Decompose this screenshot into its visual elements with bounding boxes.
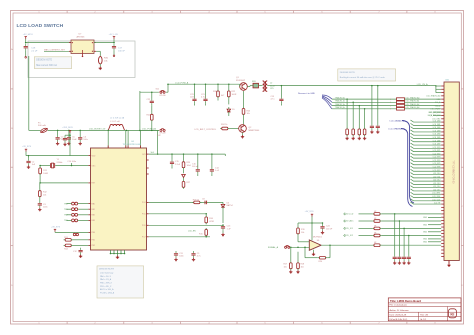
crystal Y1	[51, 163, 55, 168]
svg-text:Ki: Ki	[450, 312, 454, 317]
gnd opamp	[313, 250, 315, 253]
wire to pin 3	[382, 235, 442, 237]
svg-text:GND: GND	[423, 224, 428, 226]
svg-text:C10 100n: C10 100n	[67, 161, 76, 163]
svg-text:100R: 100R	[232, 94, 237, 96]
svg-text:DESIGN NOTE: DESIGN NOTE	[99, 269, 115, 271]
wire boost rail left	[29, 129, 41, 131]
wire switch box down	[28, 56, 30, 130]
wire cap drop 0	[394, 213, 396, 215]
resistor R28 inline	[192, 201, 201, 204]
capacitor CC2	[402, 255, 406, 262]
wire rn out 3	[405, 108, 442, 110]
capacitor CC3	[407, 255, 411, 262]
svg-text:100R: 100R	[43, 173, 48, 175]
svg-text:PC5: PC5	[142, 214, 146, 216]
capacitor C7	[69, 134, 71, 136]
pin 51	[441, 249, 444, 251]
pin 11	[441, 118, 444, 120]
svg-text:2.2 uF: 2.2 uF	[31, 50, 38, 52]
connector bottom pin	[448, 261, 450, 264]
pin 49	[441, 242, 444, 244]
bus entry row 13	[411, 123, 442, 125]
resistor R04	[372, 244, 381, 247]
bus entry row 20	[411, 146, 442, 148]
svg-text:BAT54: BAT54	[227, 204, 234, 207]
wire cap riser a	[371, 86, 373, 124]
pin 10	[441, 115, 444, 117]
gnd jtag 2	[358, 137, 361, 140]
pin 1	[441, 85, 444, 87]
capacitor C4	[57, 130, 59, 132]
svg-text:LCD_SP1: LCD_SP1	[433, 150, 441, 152]
svg-text:PA1: PA1	[92, 208, 95, 211]
svg-text:LCD Summary:: LCD Summary:	[100, 272, 114, 274]
pin 21	[441, 151, 444, 153]
svg-text:LCD_D15: LCD_D15	[433, 189, 440, 191]
svg-text:+3V_ADC: +3V_ADC	[345, 220, 354, 223]
diode D4	[183, 169, 185, 173]
svg-text:LCD_DB7: LCD_DB7	[433, 144, 441, 146]
resistor R12	[39, 189, 42, 198]
svg-text:+3V_SYS: +3V_SYS	[22, 146, 32, 148]
bus entry row 14	[411, 127, 442, 129]
svg-text:PA0 = D0..3: PA0 = D0..3	[100, 275, 112, 278]
svg-text:100 nF: 100 nF	[326, 228, 333, 230]
svg-text:500 mA: 500 mA	[38, 124, 46, 127]
capacitor C6	[79, 130, 81, 132]
svg-text:KiCad E.D.A. 8.0.1: KiCad E.D.A. 8.0.1	[390, 318, 409, 321]
resistor RN1 0	[397, 98, 405, 101]
wire PC4 row	[149, 201, 223, 203]
bus entry row 35	[411, 196, 442, 198]
kicad logo	[448, 309, 456, 318]
wire low row 4	[371, 244, 373, 246]
wire 3V3 row end cap	[224, 154, 226, 156]
solder jumper SJ2	[160, 129, 165, 132]
gnd jtag 1	[352, 137, 355, 140]
bus entry row 33	[411, 189, 442, 191]
top power rail wire	[168, 83, 240, 85]
net label MAX_CURRENT_SET	[44, 50, 71, 52]
bus entry row 30	[411, 179, 442, 181]
svg-text:10k: 10k	[247, 113, 250, 115]
svg-text:LCD_DB3: LCD_DB3	[433, 130, 441, 132]
resistor R11	[39, 166, 41, 167]
resistor R17	[290, 247, 292, 255]
bus entry row 26	[411, 166, 442, 168]
wire rn out 0	[405, 98, 442, 100]
resistor R18	[297, 252, 299, 262]
svg-text:SCL_A: SCL_A	[435, 101, 441, 104]
svg-text:LCD_DCX: LCD_DCX	[432, 199, 441, 201]
pin 19	[441, 144, 444, 146]
svg-text:LCD_TRACK0_A0: LCD_TRACK0_A0	[405, 97, 419, 100]
wire gnd short row b	[433, 114, 441, 116]
svg-text:3V3: 3V3	[142, 154, 145, 156]
top rail long wire to connector	[281, 85, 431, 87]
svg-text:1: 1	[390, 109, 391, 111]
svg-text:LCD_INT_2C0: LCD_INT_2C0	[429, 112, 440, 114]
svg-text:Backlight current 30 mA abs ma: Backlight current 30 mA abs max @ 25 C a…	[340, 76, 386, 79]
wire jtag drop 0	[346, 99, 348, 127]
svg-text:LCD_DB1: LCD_DB1	[433, 124, 441, 126]
wire to pin 1	[382, 220, 442, 222]
wire jtag drop 2	[358, 106, 360, 128]
pin 17	[441, 137, 444, 139]
svg-text:LCD_CN_A: LCD_CN_A	[417, 83, 428, 86]
pin 47	[441, 236, 444, 238]
svg-text:Rev: 2B: Rev: 2B	[420, 315, 428, 317]
bus entry row 23	[411, 156, 442, 158]
U7 pins	[69, 42, 71, 44]
riser to 3V3 row	[157, 130, 159, 154]
wire cap drop 1	[399, 220, 401, 222]
svg-text:ADC0 = SIG_A: ADC0 = SIG_A	[100, 288, 114, 291]
svg-text:Title: LM3S Demo Board: Title: LM3S Demo Board	[390, 299, 421, 303]
pin 40	[441, 213, 444, 215]
wire boost rail mid	[48, 129, 108, 131]
pin 20	[441, 147, 444, 149]
wire gnd short row a	[433, 111, 441, 113]
svg-text:LCD_SPARE: LCD_SPARE	[430, 108, 441, 111]
MCU bottom pins	[110, 250, 112, 254]
capacitor C8 inline	[205, 201, 207, 205]
svg-text:4.7u: 4.7u	[197, 255, 201, 257]
capacitor C13	[222, 225, 224, 227]
bus entry row 29	[411, 176, 442, 178]
junction jtag 0	[346, 98, 348, 100]
svg-text:LCD_EN: LCD_EN	[188, 231, 196, 233]
bus entry row 34	[411, 192, 442, 194]
pin 29	[441, 177, 444, 179]
MCU left pin rows	[88, 155, 90, 157]
svg-text:100n: 100n	[190, 97, 194, 99]
pin 36	[441, 200, 444, 202]
capacitor CC1	[397, 255, 401, 262]
svg-text:LCD_IO2: LCD_IO2	[345, 235, 353, 237]
feedback resistor R20	[318, 256, 327, 259]
pin 3	[441, 92, 444, 94]
gnd jtag 0	[345, 137, 348, 140]
MCU U4 body	[91, 148, 147, 250]
bus entry row 15	[411, 130, 442, 132]
capacitor C18	[24, 44, 28, 51]
wire gnd row	[428, 231, 441, 233]
svg-text:PB1 = RD_X: PB1 = RD_X	[100, 286, 112, 288]
pin 16	[441, 134, 444, 136]
pin 9	[441, 111, 444, 113]
vertical link between jumpers	[139, 91, 141, 130]
resistor RJ3	[363, 127, 366, 136]
bus entry row 17	[411, 136, 442, 138]
pin 34	[441, 193, 444, 195]
svg-text:Max current 300 mA: Max current 300 mA	[36, 64, 57, 67]
wire cap drop 2	[403, 228, 405, 230]
svg-text:100n: 100n	[179, 255, 183, 257]
svg-text:+3V_SYS: +3V_SYS	[305, 211, 315, 213]
svg-text:MAX_CURRENT_SET: MAX_CURRENT_SET	[44, 49, 66, 52]
svg-text:100 nF: 100 nF	[192, 166, 199, 168]
pin 43	[441, 223, 444, 225]
svg-text:LCD_DB4: LCD_DB4	[433, 134, 441, 136]
pin 14	[441, 128, 444, 130]
junction jtag 3	[364, 108, 366, 110]
resistor R25	[183, 153, 185, 155]
capacitor C2	[28, 155, 30, 157]
wire to pin 2	[382, 227, 442, 229]
svg-text:PA0: PA0	[92, 202, 95, 205]
svg-text:TFT-CONTROLLER: TFT-CONTROLLER	[123, 144, 142, 146]
pin 44	[441, 226, 444, 228]
svg-text:OP-DE: OP-DE	[159, 95, 166, 97]
wire cap riser b	[377, 86, 379, 124]
wire PC7 row	[149, 236, 210, 238]
resistor R30	[99, 56, 103, 64]
capacitor CC0	[393, 255, 397, 262]
pin 2	[441, 88, 444, 90]
svg-text:Reserve it to GND: Reserve it to GND	[298, 92, 315, 95]
svg-text:100n: 100n	[83, 139, 87, 141]
svg-text:+3V_LCD: +3V_LCD	[345, 214, 354, 216]
svg-text:L1 4.7 uH: L1 4.7 uH	[110, 121, 120, 123]
resistor RJ0	[346, 127, 349, 136]
wire to pin 0	[382, 213, 442, 215]
svg-text:PA2: PA2	[92, 214, 95, 217]
wire opamp vcc	[311, 217, 313, 224]
svg-text:LCD_DB0: LCD_DB0	[433, 121, 441, 123]
svg-text:LCD_TRACK0_A3: LCD_TRACK0_A3	[426, 95, 440, 98]
svg-text:+3V_MCU: +3V_MCU	[23, 34, 34, 36]
svg-text:PC4: PC4	[142, 202, 146, 204]
pin 28	[441, 174, 444, 176]
MCU top pins	[107, 146, 109, 149]
pin 5	[441, 98, 444, 100]
svg-text:LCD_D12: LCD_D12	[433, 180, 440, 182]
bus entry row 27	[411, 169, 442, 171]
svg-text:PC2M = DTA_A: PC2M = DTA_A	[100, 292, 115, 295]
svg-text:LCD_D13: LCD_D13	[433, 183, 440, 185]
capacitor C10	[71, 165, 73, 167]
svg-text:DESIGN NOTE: DESIGN NOTE	[36, 60, 52, 62]
pin 12	[441, 121, 444, 123]
pin 53	[441, 256, 444, 258]
resistor R16	[205, 213, 207, 215]
inductor L2 coupled	[263, 81, 265, 92]
capacitor C9	[191, 251, 195, 258]
resistor R19	[297, 223, 299, 227]
svg-text:R24 1k: R24 1k	[221, 124, 227, 126]
pin 37	[441, 203, 444, 205]
capacitor C15	[171, 153, 173, 155]
svg-text:AP2306: AP2306	[77, 36, 86, 39]
wire RST row	[40, 182, 88, 184]
resistor R13	[64, 239, 73, 242]
svg-text:LCD_SP4: LCD_SP4	[433, 160, 441, 162]
svg-text:PB0: PB0	[92, 232, 95, 234]
wire rail left	[26, 42, 71, 44]
svg-text:+3V_SYS: +3V_SYS	[51, 226, 61, 228]
gnd jtag 3	[363, 137, 366, 140]
svg-text:SDA_A: SDA_A	[435, 104, 441, 107]
svg-text:8 MHz: 8 MHz	[57, 162, 63, 164]
svg-text:PB0 = WR_X: PB0 = WR_X	[100, 282, 113, 284]
svg-text:LCD_TRACK0_A3: LCD_TRACK0_A3	[405, 106, 419, 109]
pin 42	[441, 219, 444, 221]
resistor R27 lower	[182, 180, 185, 189]
svg-text:PC6: PC6	[142, 225, 146, 227]
svg-text:Author: N. Unknown: Author: N. Unknown	[390, 309, 410, 312]
solder jumper SJ1	[160, 90, 165, 93]
pin 41	[441, 216, 444, 218]
diode D3	[221, 202, 225, 209]
svg-text:LCD_TRACK0_A2: LCD_TRACK0_A2	[405, 103, 419, 106]
bus entry row 37	[411, 202, 442, 204]
wire power to rail	[25, 39, 27, 43]
capacitor C16	[197, 153, 199, 155]
svg-text:OP-DE: OP-DE	[159, 132, 166, 134]
wire gnd row	[428, 224, 441, 226]
svg-text:LCD_D11: LCD_D11	[433, 176, 440, 178]
bus entry row 31	[411, 182, 442, 184]
resistor RN1 3	[397, 108, 405, 111]
svg-text:470R: 470R	[209, 221, 214, 223]
pin 24	[441, 160, 444, 162]
resistor R02	[372, 227, 381, 230]
capacitor C12	[79, 248, 83, 255]
pin 46	[441, 233, 444, 235]
ferrite bead FB1	[253, 83, 259, 88]
svg-text:+3V3_MCU: +3V3_MCU	[62, 127, 73, 129]
svg-text:100 nF: 100 nF	[118, 50, 125, 52]
resistor R01	[372, 220, 381, 223]
svg-text:GND: GND	[423, 239, 428, 241]
MCU right pin rows	[147, 153, 149, 155]
wire VDD row	[26, 155, 88, 157]
pin 38	[441, 206, 444, 208]
bus entry row 28	[411, 173, 442, 175]
wire to pin 4	[382, 244, 442, 246]
svg-text:LCD_BOOST_5V: LCD_BOOST_5V	[89, 129, 106, 131]
resistor R03	[372, 234, 381, 237]
svg-text:10k: 10k	[301, 232, 304, 234]
capacitor CJ1	[370, 124, 374, 131]
wire rn out 1	[405, 101, 442, 103]
wire boost rail right of L1	[107, 129, 159, 131]
capacitor C5	[68, 130, 70, 132]
pin 48	[441, 239, 444, 241]
capacitor C24	[322, 222, 324, 224]
wire gnd row	[428, 217, 441, 219]
pin 25	[441, 164, 444, 166]
jumper signal	[285, 246, 290, 249]
resistor R14	[64, 244, 73, 247]
svg-text:+3V_LCD: +3V_LCD	[109, 34, 119, 36]
pin 32	[441, 187, 444, 189]
resistor RJ2	[358, 127, 361, 136]
bus entry row 36	[411, 199, 442, 201]
wire R24 to Q2	[229, 128, 238, 130]
resistor R15	[205, 229, 207, 231]
resistor RJ1	[352, 127, 355, 136]
section outline box	[28, 41, 135, 78]
capacitor C14	[211, 153, 213, 155]
bus entry row 12	[411, 120, 442, 122]
svg-text:4.7u: 4.7u	[271, 99, 275, 101]
wire signal to opamp	[290, 246, 309, 248]
svg-text:100n: 100n	[43, 206, 47, 208]
svg-text:TRACK1_A: TRACK1_A	[335, 100, 346, 103]
gnd CC2	[402, 261, 405, 264]
IC U7 load switch	[71, 40, 94, 54]
svg-text:SIGNAL_A: SIGNAL_A	[268, 246, 279, 249]
svg-text:PA3: PA3	[92, 219, 95, 222]
svg-text:Id: 1/1: Id: 1/1	[420, 319, 427, 321]
op-amp U6	[309, 240, 321, 250]
boot jumper	[73, 233, 75, 235]
svg-text:LCD_TE: LCD_TE	[434, 203, 441, 205]
svg-text:LCD_DB2: LCD_DB2	[433, 127, 441, 129]
svg-text:LCD_TRACK0_A1: LCD_TRACK0_A1	[405, 100, 419, 103]
svg-text:GND: GND	[423, 232, 428, 234]
svg-text:LCD_WRT: LCD_WRT	[432, 193, 440, 195]
resistor R26	[217, 83, 219, 85]
svg-text:TRACK2_A: TRACK2_A	[335, 103, 346, 106]
svg-text:LCD_SP6: LCD_SP6	[433, 167, 441, 169]
wire opamp out	[321, 244, 372, 246]
svg-text:LCD_D10: LCD_D10	[433, 173, 440, 175]
pin 35	[441, 197, 444, 199]
resistor R23	[243, 91, 245, 107]
pin 50	[441, 246, 444, 248]
inductor L1	[108, 124, 124, 130]
svg-text:PB2: PB2	[92, 245, 95, 247]
pin 26	[441, 167, 444, 169]
svg-text:LCD_RDX: LCD_RDX	[432, 196, 441, 198]
resistor RN1 2	[397, 104, 405, 107]
diode D5	[228, 98, 230, 104]
wire gnd row	[428, 241, 441, 243]
svg-text:MCP6001: MCP6001	[313, 236, 323, 238]
junction C18	[25, 42, 27, 44]
svg-text:LCD_BKLT_CONTROL: LCD_BKLT_CONTROL	[195, 129, 218, 131]
svg-text:File: LCD-load.pro: File: LCD-load.pro	[390, 305, 408, 307]
svg-text:LCD_DB6: LCD_DB6	[433, 140, 441, 142]
pin 7	[441, 105, 444, 107]
pin end below C18	[25, 51, 27, 57]
pin end below C17	[113, 51, 115, 55]
junction jtag 1	[352, 102, 354, 104]
connector CN1 body	[444, 82, 459, 261]
svg-text:1: 1	[390, 105, 391, 107]
capacitor C21	[205, 83, 207, 85]
wires MCU top pins to rail	[107, 130, 109, 132]
svg-text:1: 1	[390, 99, 391, 101]
capacitor C17	[112, 44, 116, 51]
design note box 1	[34, 57, 71, 69]
wire xtal row	[40, 165, 50, 167]
svg-text:PC7: PC7	[142, 237, 146, 239]
svg-text:4.7uF: 4.7uF	[201, 97, 207, 99]
svg-text:PA4 = CS_A: PA4 = CS_A	[100, 278, 112, 281]
gnd CC3	[407, 261, 410, 264]
svg-text:10uF: 10uF	[72, 139, 77, 141]
bus fan to jtag rows	[322, 95, 332, 109]
wire cap drop 3	[408, 235, 410, 237]
pin 27	[441, 170, 444, 172]
pin 30	[441, 180, 444, 182]
pin 39	[441, 210, 444, 212]
